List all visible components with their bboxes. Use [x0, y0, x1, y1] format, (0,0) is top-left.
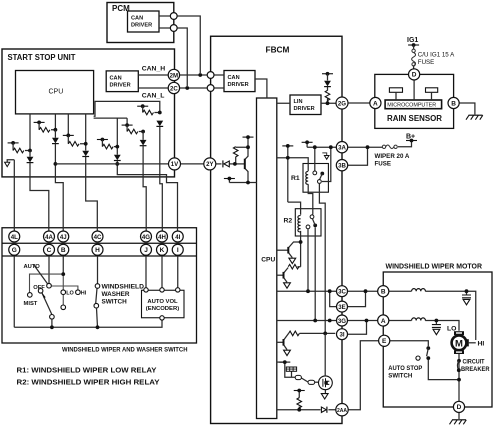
svg-text:FUSE: FUSE: [418, 59, 435, 66]
driver circle (output device): [319, 376, 333, 390]
contact R1 common (filled): [320, 172, 324, 176]
svg-text:DRIVER: DRIVER: [228, 82, 249, 88]
svg-text:B: B: [61, 247, 66, 254]
svg-text:2M: 2M: [170, 72, 178, 79]
svg-text:2Y: 2Y: [206, 161, 213, 168]
contact R1 arm: [318, 180, 322, 184]
svg-text:3E: 3E: [338, 304, 345, 311]
junction Q1 collector / R2 coil: [299, 240, 303, 244]
contact R1 fixed: [313, 171, 317, 175]
wire Q3 emitter: [284, 345, 287, 350]
resistor (2Y base): [233, 147, 238, 157]
pin circle PCM 2: [170, 25, 177, 32]
svg-text:HI: HI: [81, 291, 87, 297]
wire: [327, 74, 329, 103]
junction s4/bus1: [115, 162, 119, 166]
connector 1V: [169, 158, 181, 170]
buffer oval 1: [295, 375, 301, 379]
arrow ground (B cap, open): [463, 299, 470, 304]
wire E line to auto stop: [390, 341, 429, 346]
resistor (LIN pull-up): [325, 90, 330, 100]
capacitor block right (rain sensor): [426, 88, 438, 93]
svg-text:CAN: CAN: [110, 76, 122, 82]
pin circle FBCM CAN_L: [207, 85, 214, 92]
microcomputer box: [385, 100, 442, 109]
flag s1: [8, 141, 19, 145]
svg-text:OFF: OFF: [33, 285, 45, 291]
wire CPU to relay node: [277, 157, 288, 159]
svg-text:4G: 4G: [142, 234, 150, 241]
wire box stub: [291, 371, 293, 377]
svg-text:SWITCH: SWITCH: [102, 299, 128, 306]
wire R1 coil bottom to R2 contact: [308, 184, 313, 214]
svg-text:4A: 4A: [45, 234, 53, 241]
connector 3B: [336, 160, 347, 171]
auto stop switch contact top: [426, 346, 430, 350]
encoder bottom pin: [160, 316, 164, 320]
connector D (rain): [409, 69, 420, 80]
fuse WIPER 20A (horizontal): [382, 145, 397, 149]
svg-text:BREAKER: BREAKER: [461, 366, 490, 373]
wire Q2 base: [277, 274, 283, 276]
svg-text:WIPER 20 A: WIPER 20 A: [375, 153, 410, 160]
connector B (rain): [448, 97, 459, 108]
wire collector up to flag: [245, 137, 248, 159]
junction R1 node: [286, 156, 290, 160]
svg-text:START STOP UNIT: START STOP UNIT: [8, 53, 76, 62]
junction breaker/auto stop: [457, 378, 461, 382]
svg-text:J: J: [144, 247, 148, 254]
wire motor bottom to D: [458, 354, 460, 401]
motor brush cap top: [454, 331, 464, 335]
svg-text:AUTO STOP: AUTO STOP: [388, 365, 423, 372]
wire rain sensor B to ground: [459, 103, 475, 115]
flag (R1 coil supply): [282, 144, 293, 148]
FBCM CAN driver box: [224, 71, 255, 92]
wire PCM pin1 to CAN_H trunk: [177, 16, 200, 73]
wire Q3 collector: [284, 333, 289, 340]
svg-text:FUSE: FUSE: [375, 161, 392, 168]
connector A (motor): [378, 315, 389, 326]
wire R2 common to 3G line: [314, 227, 316, 320]
junction 3C/R2arm: [306, 289, 310, 293]
circuit breaker contacts: [457, 359, 461, 363]
flag s6: [137, 104, 148, 108]
diode s5: [140, 140, 147, 146]
junction B: [61, 272, 65, 276]
wire HI bracket: [469, 342, 476, 344]
pin circle PCM 1: [170, 13, 177, 20]
wire dot3 to R1 contact: [314, 147, 316, 171]
connector C: [44, 244, 55, 255]
junction dot4: [329, 145, 333, 149]
wire 2Y to diode: [216, 163, 222, 165]
wire s2 down to bus1, jog to 4J: [55, 130, 63, 232]
svg-text:A: A: [373, 100, 378, 107]
svg-text:4H: 4H: [158, 234, 166, 241]
svg-text:H: H: [95, 247, 100, 254]
wire LIN driver to 2G: [277, 102, 337, 104]
svg-text:E: E: [382, 338, 387, 345]
wire R1-out vertical passes to driver top: [324, 333, 326, 376]
pull-up s3: [67, 114, 69, 135]
connector 2AA: [336, 404, 348, 416]
contact OFF: [38, 289, 43, 294]
junction bus/washer: [96, 325, 100, 329]
svg-text:1V: 1V: [171, 161, 179, 168]
arrow below driver (open): [321, 394, 328, 399]
connector 4G: [141, 231, 152, 242]
resistor (2AA): [297, 398, 302, 408]
svg-text:HI: HI: [478, 341, 485, 348]
svg-text:3A: 3A: [338, 145, 346, 152]
junction s3: [84, 142, 88, 146]
connector 4A: [44, 231, 55, 242]
wire AUTO contact to HI contact: [51, 286, 78, 290]
junction s6: [158, 111, 162, 115]
capacitor (B line): [462, 295, 471, 298]
resistor s6: [143, 110, 154, 115]
contact R2 common (filled): [313, 224, 317, 228]
flag s3: [63, 134, 74, 138]
wire bottom bus: [14, 320, 162, 327]
svg-text:3G: 3G: [338, 318, 346, 325]
flag (emitter line): [224, 177, 235, 181]
R1 coil: [306, 172, 308, 185]
wire G drop to bottom bus: [13, 255, 15, 327]
connector strip lines: [2, 243, 197, 256]
wire coil to HI drop: [425, 291, 475, 340]
resistor s1: [13, 148, 24, 153]
connector 3I: [337, 329, 348, 340]
wire driver output down: [324, 390, 326, 394]
connector A (rain): [370, 97, 381, 108]
contact washer top: [95, 284, 100, 289]
wire 2AA line: [277, 409, 336, 411]
flag (R1 contact supply): [302, 140, 313, 144]
svg-text:SWITCH: SWITCH: [388, 373, 412, 380]
svg-text:D: D: [457, 404, 462, 411]
flag s2: [34, 121, 45, 125]
IC block (hatched): [286, 367, 296, 371]
capacitor block left (rain sensor): [389, 88, 402, 93]
AUTO VOL encoder box: [142, 290, 185, 318]
svg-text:4J: 4J: [60, 234, 67, 241]
wire s6 to 4H: [160, 127, 163, 232]
connector K: [157, 244, 168, 255]
junction CAN_L/PCM: [185, 86, 189, 90]
wire s5 to 4G: [143, 132, 146, 232]
wire LO contact to lower contact: [62, 295, 64, 306]
arm arrowhead: [42, 292, 46, 298]
svg-text:MICROCOMPUTER: MICROCOMPUTER: [387, 103, 436, 109]
svg-text:B: B: [381, 289, 386, 296]
svg-text:R1: WINDSHIELD WIPER LOW RELAY: R1: WINDSHIELD WIPER LOW RELAY: [17, 366, 157, 375]
svg-text:WINDSHIELD WIPER MOTOR: WINDSHIELD WIPER MOTOR: [386, 262, 483, 271]
wire bus1 (1V line): [55, 163, 203, 165]
emitter arrow Q1 (open): [289, 258, 296, 263]
wire 3G to A: [348, 320, 379, 322]
wire R2 coil bottom to driver: [300, 231, 302, 242]
connector 3E: [337, 301, 348, 312]
svg-text:4C: 4C: [94, 234, 102, 241]
contact LO: [61, 290, 66, 295]
svg-text:CAN_H: CAN_H: [142, 66, 166, 73]
wires inside rain sensor: [396, 80, 432, 100]
inductor (A line): [412, 318, 426, 321]
contact washer bottom: [94, 303, 99, 308]
wire IG1 to fuse: [413, 45, 415, 69]
svg-text:IG1: IG1: [407, 37, 418, 44]
wire 3E link left: [330, 291, 337, 306]
wire emitter down: [245, 168, 248, 182]
LIN driver box: [290, 95, 321, 115]
connector I: [172, 244, 183, 255]
connector 3A: [336, 142, 347, 153]
auto stop open contact: [416, 356, 420, 360]
PCM CAN driver box: [128, 11, 160, 32]
wire cap A down: [435, 321, 437, 325]
junction 3C/3E right: [364, 289, 368, 293]
emitter arrow Q2 (open): [284, 283, 291, 288]
wire dot4 to R1 arm: [322, 147, 331, 181]
connector 3G: [337, 315, 348, 326]
auto stop switch contact bottom: [426, 356, 430, 360]
svg-text:RAIN SENSOR: RAIN SENSOR: [387, 114, 442, 123]
switch arm washer: [96, 288, 97, 303]
resistor s3: [68, 142, 79, 147]
resistor (Darlington): [288, 264, 299, 269]
RAIN SENSOR box: [375, 74, 454, 128]
wire B drop to junction: [62, 255, 64, 274]
wire D to ground: [458, 413, 460, 419]
transistor Q2 base bar: [283, 272, 285, 279]
connector J: [141, 244, 152, 255]
junction LIN/2G: [326, 101, 330, 105]
wire flag/resistor to 2AA line: [298, 391, 300, 410]
svg-text:R2: R2: [284, 218, 293, 225]
connector D (motor): [453, 401, 464, 412]
junction s2: [54, 128, 58, 132]
contact R2 arm: [306, 225, 310, 229]
connector B (motor): [378, 286, 389, 297]
svg-text:DRIVER: DRIVER: [131, 23, 152, 29]
capacitor (A line): [432, 325, 441, 328]
PCM box: [107, 3, 174, 43]
connector G: [9, 244, 20, 255]
wire 3C to motor B: [348, 290, 378, 292]
resistor s2: [39, 128, 50, 133]
diode D (LIN pull-up): [324, 81, 331, 87]
connector 2C: [168, 82, 179, 93]
svg-text:CAN_L: CAN_L: [142, 93, 165, 100]
svg-text:2C: 2C: [170, 85, 178, 92]
junction s1: [28, 149, 32, 153]
wire flag to resistor: [13, 143, 30, 151]
wire resistor link: [236, 147, 248, 164]
pull-up s2: [54, 114, 56, 130]
wire resistor net: [297, 242, 300, 267]
motor brush HI side: [466, 339, 469, 346]
wire oval1 to oval2: [301, 378, 307, 382]
svg-text:LO: LO: [66, 291, 74, 297]
svg-text:2AA: 2AA: [337, 408, 347, 414]
wire Q1 base: [277, 249, 288, 251]
buffer oval 2: [308, 380, 315, 384]
svg-text:D: D: [412, 72, 417, 79]
diode (2AA line, pointing right): [321, 407, 326, 412]
diode s3: [82, 151, 89, 157]
pin circle FBCM CAN_H: [207, 72, 214, 79]
wire cap B down: [466, 291, 468, 295]
wire diode to base: [229, 163, 244, 165]
wire CAN_L: [138, 87, 224, 89]
wire auto stop down to D line: [428, 360, 459, 380]
svg-text:A: A: [381, 318, 386, 325]
svg-text:C/U IG1 15 A: C/U IG1 15 A: [418, 52, 455, 59]
START STOP UNIT box: [2, 49, 175, 177]
wire washer to bus: [97, 308, 98, 327]
wire emitter line to CPU: [229, 182, 256, 184]
wire 3E right to 3C line: [348, 291, 366, 306]
WINDSHIELD WIPER MOTOR box: [383, 272, 492, 407]
flag (driver input): [279, 360, 290, 364]
flag (2Y collector): [243, 135, 254, 139]
svg-text:WINDSHIELD: WINDSHIELD: [102, 284, 145, 291]
svg-text:DRIVER: DRIVER: [294, 106, 315, 112]
wire node to R1 coil top: [288, 158, 308, 171]
junction cap B: [465, 289, 469, 293]
wire B to coil: [389, 290, 412, 292]
svg-text:CAN: CAN: [131, 16, 143, 22]
svg-text:LIN: LIN: [294, 99, 303, 105]
wire 3G line: [277, 320, 337, 322]
transistor Q (2Y input) base bar: [244, 159, 246, 169]
svg-text:B: B: [451, 100, 456, 107]
wire fuse to B+ flag: [398, 142, 412, 147]
contact AUTO (C): [47, 283, 52, 288]
connector 4J: [58, 231, 69, 242]
svg-text:B+: B+: [406, 134, 415, 141]
wire s4 to bus1 and 4I: [117, 161, 177, 232]
feed wire from CPU: [94, 118, 128, 125]
wire R2 arm to 3C line: [307, 229, 309, 291]
svg-text:CPU: CPU: [261, 257, 275, 264]
junction 3C/3E: [328, 289, 332, 293]
svg-text:CPU: CPU: [49, 89, 64, 96]
CPU box (start stop unit): [16, 71, 94, 114]
contact R2 fixed: [310, 215, 314, 219]
wire H drop to washer contact: [97, 255, 99, 283]
motor M: [452, 335, 467, 350]
connector 4H: [157, 231, 168, 242]
R1 relay box: [303, 164, 328, 193]
contact lower (wiper select): [61, 305, 66, 310]
junction resistor/2AA line: [297, 408, 301, 412]
junction collector/resistor: [246, 145, 250, 149]
connector 4I: [172, 231, 183, 242]
svg-text:FBCM: FBCM: [266, 45, 290, 55]
svg-text:I: I: [177, 247, 179, 254]
flag IG1: [408, 43, 419, 47]
wire flag stub: [228, 179, 230, 183]
junction 3G b: [328, 319, 332, 323]
resistor (Q3 collector): [289, 331, 300, 336]
diode (2Y input, pointing left): [224, 161, 229, 167]
fuse C/U IG1 15A (vertical): [412, 49, 416, 66]
transistor Q1 base bar: [287, 247, 289, 254]
inductor (B line): [412, 289, 426, 292]
auto stop switch arm: [427, 348, 429, 356]
junction dot3: [313, 145, 317, 149]
resistor s5: [127, 129, 138, 134]
svg-text:AUTO VOL: AUTO VOL: [147, 299, 178, 305]
wire flag R1 coil: [287, 146, 289, 202]
wire oval2 to driver circle: [315, 381, 319, 383]
wire coil to LO drop: [425, 321, 459, 331]
wire 3I right up to 3G line: [347, 321, 366, 335]
flag B+: [406, 139, 417, 143]
wire CPU stub: [277, 361, 285, 363]
connector E (motor): [379, 335, 390, 346]
svg-text:2G: 2G: [338, 100, 346, 107]
wire 3A to fuse: [348, 146, 383, 148]
wire 3A junction down to 3B: [348, 147, 368, 165]
connector 4C: [92, 231, 103, 242]
wire PCM CAN driver to pin circles: [159, 16, 170, 28]
connector B: [58, 244, 69, 255]
junction s2/bus1: [54, 162, 58, 166]
junction 3I/R1 out: [323, 332, 327, 336]
diode s4: [114, 155, 121, 161]
svg-text:MIST: MIST: [24, 301, 38, 307]
svg-text:M: M: [455, 338, 463, 349]
wire PCM pin2 to CAN_L trunk: [177, 28, 187, 86]
transistor Q3 base bar: [283, 339, 285, 346]
svg-text:WASHER: WASHER: [102, 291, 130, 298]
wire B junction to MIST contact: [30, 274, 64, 292]
diode s1: [27, 157, 34, 163]
wire R1 arm out to R2: [319, 184, 325, 334]
connector 2Y: [204, 158, 216, 170]
wire s1 to bus and 4A: [30, 151, 49, 232]
svg-text:3B: 3B: [338, 163, 346, 170]
flag (LIN pull-up supply): [322, 72, 333, 76]
svg-text:K: K: [160, 247, 165, 254]
R2 coil: [298, 216, 301, 233]
junction s4: [115, 145, 119, 149]
wire 3A line inside FBCM: [307, 142, 337, 147]
wire 2AA to E: [349, 341, 379, 410]
junction base node: [233, 162, 237, 166]
svg-text:3C: 3C: [338, 289, 346, 296]
wire flag down to ovals: [285, 362, 295, 377]
svg-text:4I: 4I: [175, 234, 180, 241]
diode s2: [52, 138, 59, 144]
wire Q2 collector: [284, 268, 288, 273]
svg-text:C: C: [47, 247, 52, 254]
wire 4L drop: [13, 160, 15, 232]
wire CPU stub s1: [29, 114, 31, 151]
encoder pin circles: [144, 288, 148, 292]
ground (below D): [450, 420, 467, 425]
FBCM CPU tall box: [257, 98, 277, 419]
svg-text:LO: LO: [447, 326, 456, 333]
flag s5: [122, 123, 133, 127]
junction cap A: [435, 319, 439, 323]
svg-text:CIRCUIT: CIRCUIT: [463, 359, 485, 366]
wire CAN_H: [138, 74, 224, 76]
